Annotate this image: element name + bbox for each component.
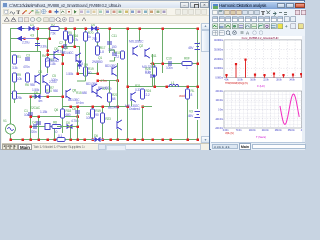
wire seg x160 lower xyxy=(162,63,164,73)
wire ground rail xyxy=(10,139,197,141)
junction dots input rail xyxy=(23,38,50,40)
svg-text:0.1: 0.1 xyxy=(58,134,62,138)
wire seg x107 lower xyxy=(109,80,111,93)
THD y-axis labels xyxy=(214,38,223,80)
capacitor C3 xyxy=(23,54,30,70)
svg-text:34.0k: 34.0k xyxy=(289,78,295,81)
capacitor C6 xyxy=(71,107,80,123)
svg-text:BE140C: BE140C xyxy=(108,106,120,110)
transistor Q8 xyxy=(66,89,80,103)
svg-text:R1: R1 xyxy=(17,55,21,59)
svg-text:1.8: 1.8 xyxy=(79,62,83,66)
svg-text:30.000m: 30.000m xyxy=(214,47,223,51)
svg-text:8: 8 xyxy=(191,93,193,97)
resistor R19b xyxy=(84,67,94,76)
wire seg x52 lower xyxy=(54,126,56,139)
svg-text:10k: 10k xyxy=(17,77,22,81)
svg-text:R11: R11 xyxy=(32,95,38,99)
wire seg x140 lower xyxy=(142,106,144,139)
svg-text:750: 750 xyxy=(92,37,97,41)
svg-text:BD140C: BD140C xyxy=(62,51,74,55)
diode D4 xyxy=(88,23,100,30)
wire seg y103 ext xyxy=(57,126,77,128)
wire seg x115 lower xyxy=(117,106,119,121)
svg-text:THD(HARM(V(RL))) (%): THD(HARM(V(RL))) (%) xyxy=(225,82,248,85)
THD plot frame xyxy=(224,40,302,78)
wire seg x60 long xyxy=(62,46,64,133)
transient x-axis labels xyxy=(223,129,307,132)
wire seg x125 main xyxy=(127,28,129,139)
diode D9 xyxy=(78,58,89,69)
toolbar rows xyxy=(211,9,305,16)
capacitor C11 xyxy=(107,34,117,49)
svg-text:Q2: Q2 xyxy=(139,44,143,48)
svg-text:MJL1302C: MJL1302C xyxy=(125,104,140,108)
lead wire second rail xyxy=(24,38,35,40)
junction dots extra xyxy=(38,106,72,128)
wire seg x83 xyxy=(85,28,87,63)
svg-text:2.20u: 2.20u xyxy=(49,80,57,84)
wire seg x112 stub xyxy=(110,50,115,61)
svg-text:2.2: 2.2 xyxy=(146,93,150,97)
svg-text:R23: R23 xyxy=(105,117,111,121)
svg-text:D0: D0 xyxy=(66,121,70,125)
wire seg x115 mid xyxy=(117,80,119,106)
title bar xyxy=(211,2,305,9)
svg-text:680: 680 xyxy=(66,113,71,117)
junction dot x75 y103 xyxy=(77,126,79,128)
svg-text:BD140C: BD140C xyxy=(98,86,110,90)
svg-text:350.0n: 350.0n xyxy=(288,129,296,132)
svg-text:Q0: Q0 xyxy=(54,47,58,51)
wire seg x137 xyxy=(139,28,141,41)
svg-text:100.0m: 100.0m xyxy=(216,99,224,102)
wire rail y83 ext xyxy=(142,106,152,108)
transient minor grid xyxy=(224,91,302,128)
wire input stage box xyxy=(11,52,41,94)
transistor Q4 xyxy=(62,46,81,63)
junction dots mid band xyxy=(47,46,119,82)
resistor R18 xyxy=(61,109,72,118)
wire input rail xyxy=(10,38,49,40)
svg-text:140.0n: 140.0n xyxy=(249,129,257,132)
capacitor C8 xyxy=(150,75,155,77)
svg-text:0.000m: 0.000m xyxy=(215,76,223,80)
schematic canvas xyxy=(2,23,200,143)
wire right supply column xyxy=(197,28,199,109)
svg-text:90: 90 xyxy=(95,113,99,117)
wire seg x95 mid xyxy=(97,63,99,73)
svg-text:0.0m: 0.0m xyxy=(218,109,223,112)
wire seg x68 lower xyxy=(70,126,72,139)
svg-text:R15: R15 xyxy=(76,91,82,95)
svg-text:-100.0m: -100.0m xyxy=(215,118,223,121)
svg-text:T (Secs): T (Secs) xyxy=(256,135,266,139)
svg-text:220n: 220n xyxy=(30,130,37,134)
resistor RL xyxy=(186,89,195,99)
svg-text:4m: 4m xyxy=(38,99,43,103)
resistor R26 xyxy=(145,67,157,76)
input arrow IN2 xyxy=(18,37,25,41)
wire left bus xyxy=(10,28,12,124)
resistor R24 xyxy=(141,89,152,99)
harmonic stem markers xyxy=(225,59,302,77)
wire seg x150 upper xyxy=(152,54,154,63)
svg-text:V(RL) (V): V(RL) (V) xyxy=(225,132,234,135)
wire seg x115 foot xyxy=(117,129,119,139)
svg-text:V1: V1 xyxy=(3,119,7,123)
svg-text:22.0k: 22.0k xyxy=(263,78,269,81)
wire left bus lower xyxy=(10,134,12,139)
resistor R5 xyxy=(64,31,74,40)
wire seg x72 xyxy=(74,28,76,46)
svg-text:200.0m: 200.0m xyxy=(216,90,224,93)
svg-text:Q11: Q11 xyxy=(151,54,157,58)
wire seg x107 foot xyxy=(109,102,111,106)
svg-text:1: 1 xyxy=(186,66,188,70)
bottom tab/scroll strip xyxy=(2,143,209,150)
transistor Q11 xyxy=(142,48,157,69)
svg-text:R0F: R0F xyxy=(184,57,190,61)
svg-text:4.7m: 4.7m xyxy=(100,79,107,83)
svg-text:420n: 420n xyxy=(301,129,302,132)
toolbar row 2 xyxy=(2,16,209,23)
wire rail y83 xyxy=(62,106,127,108)
plot area xyxy=(302,36,305,142)
capacitor C12 xyxy=(108,48,117,55)
wire seg x115 upper xyxy=(117,63,119,80)
wire seg x75 lower xyxy=(77,106,79,139)
battery V2 xyxy=(188,42,203,51)
wire seg x160 upper xyxy=(162,28,164,63)
resistor R70 xyxy=(84,31,94,41)
transistor Q3 xyxy=(86,82,98,94)
svg-text:C4: C4 xyxy=(32,121,36,125)
svg-text:3.30u: 3.30u xyxy=(40,45,48,49)
svg-text:950: 950 xyxy=(53,89,58,93)
svg-text:Func_RV888-3.2_AbsoluteTHD: Func_RV888-3.2_AbsoluteTHD xyxy=(242,36,279,40)
wire seg x107 xyxy=(109,28,111,53)
svg-text:2N5550: 2N5550 xyxy=(92,60,103,64)
toolbar row 1 xyxy=(2,8,209,16)
svg-text:28.0k: 28.0k xyxy=(276,78,282,81)
svg-text:45V: 45V xyxy=(188,46,194,50)
wire mid rail y23 xyxy=(58,46,80,58)
bottom strip xyxy=(211,142,305,150)
transient major grid xyxy=(224,91,302,128)
svg-text:10u: 10u xyxy=(24,113,29,117)
title bar xyxy=(2,2,209,8)
wire seg x90 lower xyxy=(92,106,94,139)
resistor R13 xyxy=(92,33,100,42)
svg-text:40.000m: 40.000m xyxy=(214,38,223,42)
battery V3 xyxy=(187,110,201,119)
svg-text:1k: 1k xyxy=(88,35,92,39)
wire seg x150 cap xyxy=(152,63,154,86)
svg-text:90: 90 xyxy=(88,71,92,75)
svg-text:Q6: Q6 xyxy=(38,70,42,74)
svg-text:Q4: Q4 xyxy=(64,46,68,50)
capacitor C2 xyxy=(35,44,48,49)
wire speaker rail y63 xyxy=(127,86,197,88)
svg-text:1.15k: 1.15k xyxy=(40,110,48,114)
wire seg x28 lower xyxy=(30,96,32,139)
wire rail y73 xyxy=(30,96,62,98)
resistor R27 on ground rail xyxy=(57,134,65,142)
svg-text:1.8: 1.8 xyxy=(100,50,104,54)
resistor R6 xyxy=(25,73,35,87)
svg-text:4.7k: 4.7k xyxy=(73,38,79,42)
output sine wave V(RL) xyxy=(280,94,299,124)
harmonic distortion stems xyxy=(227,60,302,78)
capacitor C10 xyxy=(166,57,173,71)
svg-text:V3: V3 xyxy=(189,110,193,114)
resistor R2 xyxy=(50,23,59,36)
wire seg x63 xyxy=(65,28,67,46)
svg-text:70.0n: 70.0n xyxy=(236,129,242,132)
resistor R8 xyxy=(52,121,61,135)
svg-text:BD139C: BD139C xyxy=(105,64,117,68)
svg-text:R8: R8 xyxy=(53,121,57,125)
svg-text:1.50k: 1.50k xyxy=(66,72,74,76)
wire rail y31 xyxy=(47,54,62,56)
svg-text:280.0n: 280.0n xyxy=(275,129,283,132)
transistor Q5 xyxy=(35,74,40,84)
svg-text:C6: C6 xyxy=(72,107,76,111)
capacitor C13 xyxy=(36,122,41,124)
component E3 xyxy=(45,124,50,130)
svg-text:R4: R4 xyxy=(42,54,46,58)
input arrow IN1 xyxy=(18,27,25,31)
svg-text:C11: C11 xyxy=(112,34,118,38)
resistor R3 xyxy=(46,58,56,67)
svg-text:68: 68 xyxy=(112,97,116,101)
transistor Q2 xyxy=(129,40,144,57)
resistor R20 xyxy=(108,93,118,102)
transient plot frame xyxy=(224,91,302,128)
svg-text:vout: vout xyxy=(179,94,185,98)
resistor R0F xyxy=(182,57,192,71)
svg-text:Q6: Q6 xyxy=(54,108,58,112)
wire seg x12 pot xyxy=(14,82,16,103)
resistor R17 xyxy=(96,46,106,55)
diode D5 xyxy=(32,91,44,99)
resistor R10 xyxy=(115,51,125,59)
svg-text:2.2: 2.2 xyxy=(115,55,119,59)
transistor Q6 xyxy=(32,70,48,92)
THD x-axis labels xyxy=(224,78,308,81)
resistor R23 xyxy=(101,113,112,123)
svg-text:10.000m: 10.000m xyxy=(214,66,223,70)
wire seg x152 mid xyxy=(154,63,156,86)
svg-text:7.5k: 7.5k xyxy=(50,32,56,36)
wire right supply column lower xyxy=(197,120,199,139)
svg-text:D6: D6 xyxy=(94,134,98,138)
svg-text:3.3k: 3.3k xyxy=(12,66,18,70)
svg-text:2.20u: 2.20u xyxy=(22,41,30,45)
resistor R19 xyxy=(91,109,102,118)
svg-text:950: 950 xyxy=(30,83,35,87)
svg-text:-45V: -45V xyxy=(187,114,194,118)
vertical scrollbar xyxy=(201,23,209,143)
resistor R28 xyxy=(13,91,23,100)
svg-text:20.000m: 20.000m xyxy=(214,57,223,61)
wire seg x45 xyxy=(47,38,49,73)
wire seg x129 q10 xyxy=(131,101,133,106)
wire seg x75 mid xyxy=(77,63,79,73)
svg-text:C7: C7 xyxy=(59,41,63,45)
svg-text:25k: 25k xyxy=(17,96,22,100)
junction dots lower band xyxy=(30,96,144,128)
diode D6 on ground rail xyxy=(92,134,104,142)
junction dots ground rail xyxy=(10,139,199,141)
svg-text:A: A xyxy=(246,31,250,36)
wire seg x95 xyxy=(97,28,99,46)
wire seg x100 lower xyxy=(102,106,104,139)
diode D0 xyxy=(64,121,76,129)
resistor R1 xyxy=(12,55,21,70)
svg-text:210.0n: 210.0n xyxy=(262,129,270,132)
wire top supply rail xyxy=(10,28,198,30)
transient y-axis labels xyxy=(215,90,223,130)
svg-text:0.1u: 0.1u xyxy=(145,70,151,74)
svg-text:L1: L1 xyxy=(171,81,175,85)
wire seg x83 lower xyxy=(77,63,86,81)
wire seg x75 col xyxy=(77,116,79,126)
svg-text:MJL3281C: MJL3281C xyxy=(129,40,144,44)
svg-text:BD139C: BD139C xyxy=(86,82,98,86)
diode D1 xyxy=(26,23,38,31)
wire seg x185 speaker xyxy=(187,86,189,139)
junction dots output rail xyxy=(152,63,199,65)
resistor R7 xyxy=(46,85,55,93)
capacitor C1 xyxy=(24,109,33,117)
svg-text:6+4m: 6+4m xyxy=(76,101,84,105)
source V1 xyxy=(3,119,16,134)
transistor Q10 xyxy=(125,92,140,108)
transistor Q0 xyxy=(46,47,59,63)
transistor Q9 xyxy=(108,106,122,131)
capacitor C4 xyxy=(30,121,37,135)
svg-text:V2: V2 xyxy=(199,42,200,46)
wire rail y50 xyxy=(77,73,97,75)
svg-text:C10: C10 xyxy=(166,57,172,61)
wire seg x36 lower xyxy=(38,116,40,139)
capacitor C7 xyxy=(57,41,66,54)
wire feedback rail y57 xyxy=(97,80,117,82)
resistor R16 xyxy=(69,34,79,43)
svg-text:F (Hz): F (Hz) xyxy=(257,84,265,88)
wire seg x47 xyxy=(49,28,51,38)
transistor Q7 xyxy=(105,64,117,76)
svg-text:2N3904C: 2N3904C xyxy=(46,59,59,63)
svg-text:16.0k: 16.0k xyxy=(250,78,256,81)
wire seg x35 xyxy=(37,28,39,51)
THD plot grid xyxy=(224,40,302,78)
svg-text:R6: R6 xyxy=(25,83,29,87)
svg-text:680: 680 xyxy=(82,91,87,95)
svg-text:100p: 100p xyxy=(86,116,93,120)
junction dots speaker rail xyxy=(127,86,199,88)
junction dots top rail xyxy=(37,28,199,30)
svg-text:0.33: 0.33 xyxy=(135,88,141,92)
svg-text:R14: R14 xyxy=(46,89,52,93)
svg-text:470n: 470n xyxy=(23,65,30,69)
svg-text:C3: C3 xyxy=(26,54,30,58)
resistor R9 pot xyxy=(13,73,23,82)
inductor L1 xyxy=(169,81,179,87)
wire output rail y40 xyxy=(150,63,197,65)
svg-text:4.9: 4.9 xyxy=(30,34,34,38)
svg-text:100n: 100n xyxy=(166,66,173,70)
wire rail y93 xyxy=(30,116,77,118)
wire rail y103 xyxy=(30,126,57,128)
transistor Q12 xyxy=(97,86,110,98)
